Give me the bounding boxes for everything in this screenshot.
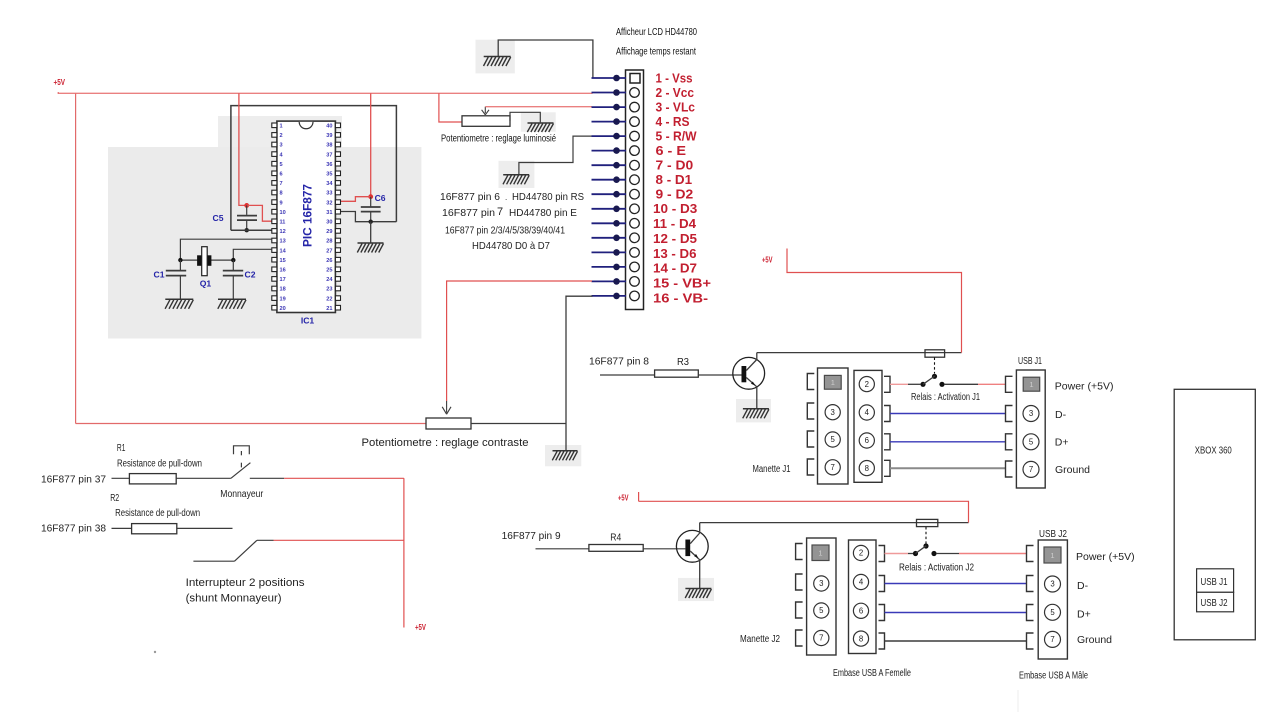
relay K1 coil <box>925 350 945 357</box>
svg-text:USB J1: USB J1 <box>1201 577 1228 588</box>
wire relay switch to USB J2 power <box>937 553 959 555</box>
wire +5V left branch vertical <box>75 93 77 423</box>
svg-text:9 - D2: 9 - D2 <box>656 187 694 202</box>
wire +5V vertical bottom left <box>403 478 405 627</box>
PIC pin 4 stub <box>272 152 277 157</box>
svg-text:5: 5 <box>819 606 824 615</box>
svg-text:25: 25 <box>326 268 332 274</box>
wire R1 to monnayeur <box>176 477 231 479</box>
wire Q4 collector up <box>699 523 701 533</box>
svg-text:12 - D5: 12 - D5 <box>653 231 697 246</box>
wire LCD pin1 Vss to ground <box>498 40 593 78</box>
switch interrupteur lower contact <box>193 560 234 562</box>
wire VB- to contrast pot right and ground <box>566 296 593 451</box>
IC notch <box>299 122 313 129</box>
wire LCD pin2 stub <box>592 92 627 94</box>
transistor Q3 <box>733 357 765 389</box>
PIC pin 23 stub <box>335 286 340 291</box>
LCD connector pin16 circle <box>630 291 640 301</box>
ground luminosity pot <box>528 122 554 124</box>
relay K1 switch <box>920 382 925 387</box>
svg-text:C1: C1 <box>154 270 165 280</box>
svg-text:HD44780 pin E: HD44780 pin E <box>509 207 577 219</box>
svg-text:21: 21 <box>326 306 332 312</box>
connector USB J1 body <box>1016 370 1045 488</box>
svg-text:Embase USB A Mâle: Embase USB A Mâle <box>1019 671 1088 682</box>
svg-text:4: 4 <box>865 408 870 417</box>
node red C6 junction <box>368 194 373 199</box>
PIC pin 27 stub <box>335 248 340 253</box>
connector Manette J2 pin5 <box>814 603 829 618</box>
gray box behind top ground <box>476 40 515 74</box>
svg-text:11 - D4: 11 - D4 <box>653 216 697 231</box>
gray box behind luminosity ground <box>521 112 556 131</box>
svg-text:16F877 pin 2/3/4/5/38/39/40/41: 16F877 pin 2/3/4/5/38/39/40/41 <box>445 226 565 237</box>
LCD connector CN1 body <box>626 70 644 310</box>
svg-text:8 - D1: 8 - D1 <box>656 172 693 187</box>
wire LCD pin14 stub <box>592 266 627 268</box>
svg-text:+5V: +5V <box>762 256 773 265</box>
svg-text:Manette J1: Manette J1 <box>753 464 791 475</box>
svg-text:10: 10 <box>280 210 286 216</box>
svg-text:20: 20 <box>280 306 286 312</box>
wire PIC pin13 to crystal <box>180 239 271 260</box>
ground Vss <box>484 56 511 58</box>
PIC pin 39 stub <box>335 133 340 138</box>
wire pin38 to R2 <box>112 527 132 529</box>
LCD connector pin10 circle <box>630 204 640 214</box>
wire C6 ground lead <box>370 222 372 243</box>
PIC pin 2 stub <box>272 133 277 138</box>
PIC pin 9 stub <box>272 200 277 205</box>
svg-text:34: 34 <box>326 181 333 187</box>
connector Manette J2 pin1 pad <box>812 545 829 561</box>
wire PIC pin31 to Vss loop <box>336 212 396 222</box>
svg-text:15: 15 <box>280 258 286 264</box>
connector Manette J2 pin7 <box>814 630 829 645</box>
bracket USB J2 left y612.5 <box>1027 605 1034 621</box>
wire Q4 collector to relay coil <box>700 522 969 524</box>
node C6 to Vss junction <box>369 220 373 224</box>
gray box behind contrast ground <box>545 445 581 466</box>
wire +5V rail tick <box>57 92 59 94</box>
svg-text:Power (+5V): Power (+5V) <box>1076 551 1135 563</box>
svg-text:Relais : Activation J2: Relais : Activation J2 <box>899 562 974 573</box>
svg-text:11: 11 <box>280 220 286 226</box>
bracket Embase J2 right y583.5 <box>879 576 885 592</box>
wire J1 pin2 to relay switch <box>890 383 908 385</box>
connector Manette J1 odd body <box>818 368 849 484</box>
resistor R4 <box>589 545 643 552</box>
svg-text:R4: R4 <box>610 533 621 544</box>
bracket Embase J2 right y553.5 <box>879 546 885 562</box>
connector Embase J1 pin8 <box>859 461 874 476</box>
node crystal right <box>231 258 235 262</box>
svg-text:C6: C6 <box>375 193 386 203</box>
svg-text:C2: C2 <box>245 270 256 280</box>
svg-text:2: 2 <box>859 549 863 558</box>
wire LCD pin6 stub <box>592 150 627 152</box>
bracket USB J2 left y553.5 <box>1027 546 1034 562</box>
LCD connector pin5 circle <box>630 131 640 141</box>
PIC pin 28 stub <box>335 238 340 243</box>
connector USB J1 pin3 <box>1023 406 1039 422</box>
wire +5V rail horizontal <box>59 92 593 94</box>
connector Embase J1 even body <box>854 370 882 482</box>
bracket USB J1 left y469 <box>1006 461 1013 477</box>
PIC pin 19 stub <box>272 296 277 301</box>
PIC pin 33 stub <box>335 190 340 195</box>
svg-text:10 - D3: 10 - D3 <box>653 201 697 216</box>
wire LCD pin7 stub <box>592 164 627 166</box>
svg-text:Q1: Q1 <box>200 279 212 289</box>
svg-text:5: 5 <box>280 162 283 168</box>
PIC pin 11 stub <box>272 219 277 224</box>
connector Embase J2 even body <box>849 540 877 654</box>
svg-text:36: 36 <box>326 162 332 168</box>
svg-text:+5V: +5V <box>618 494 629 503</box>
node C5 to Vss junction <box>245 228 249 232</box>
PIC pin 18 stub <box>272 286 277 291</box>
svg-text:31: 31 <box>326 210 332 216</box>
LCD connector pin2 circle <box>630 88 640 98</box>
node LCD pin1 <box>613 75 620 82</box>
ground R/W <box>503 174 529 176</box>
wire R3 to Q3 base <box>698 374 741 376</box>
svg-text:24: 24 <box>326 277 333 283</box>
potentiometer P1 wiper arrow <box>484 107 486 114</box>
ground contrast <box>553 450 578 452</box>
relay K2 dashed link <box>925 527 927 544</box>
connector Embase J2 pin6 <box>853 603 868 618</box>
svg-text:Potentiometre : reglage lumino: Potentiometre : reglage luminosié <box>441 134 556 145</box>
PIC pin 31 stub <box>335 209 340 214</box>
resistor R1 <box>129 474 176 484</box>
PIC pin 17 stub <box>272 277 277 282</box>
svg-text:(shunt Monnayeur): (shunt Monnayeur) <box>186 593 282 605</box>
LCD connector pin14 circle <box>630 262 640 272</box>
wire J1 D- blue <box>890 413 1006 415</box>
PIC pin 8 stub <box>272 190 277 195</box>
PIC pin 6 stub <box>272 171 277 176</box>
svg-text:.: . <box>505 193 507 202</box>
node LCD pin14 <box>613 264 620 271</box>
svg-text:16F877 pin: 16F877 pin <box>442 207 495 219</box>
svg-text:16F877 pin 9: 16F877 pin 9 <box>502 530 561 542</box>
connector USB J2 pin3 <box>1045 576 1061 592</box>
svg-text:USB J1: USB J1 <box>1018 356 1042 367</box>
svg-text:2 - Vcc: 2 - Vcc <box>656 85 695 100</box>
capacitor C5 <box>246 205 248 215</box>
connector Manette J1 pin5 <box>825 432 840 447</box>
wire +5V rail to relay J2 <box>639 501 969 522</box>
potentiometer P1 reglage luminosite body <box>462 116 510 127</box>
gray box behind R/W ground <box>499 161 535 188</box>
wire pin8 to R3 <box>600 374 655 376</box>
wire red +5V drop to C6 node <box>370 93 372 196</box>
capacitor C1 <box>179 260 181 270</box>
svg-text:8: 8 <box>859 634 863 643</box>
svg-text:+5V: +5V <box>54 78 66 87</box>
PIC pin 15 stub <box>272 257 277 262</box>
node LCD pin2 <box>613 89 620 96</box>
wire pin37 to R1 <box>112 477 130 479</box>
svg-text:5: 5 <box>1050 608 1055 617</box>
svg-text:HD44780 pin RS: HD44780 pin RS <box>512 191 584 203</box>
node LCD pin6 <box>613 147 620 154</box>
bracket Manette J2 left y582 <box>796 574 803 590</box>
node LCD pin7 <box>613 162 620 169</box>
wire LCD pin12 stub <box>592 237 627 239</box>
PIC pin 38 stub <box>335 142 340 147</box>
bracket USB J1 left y384.3 <box>1006 376 1013 392</box>
node LCD pin15 <box>613 278 620 285</box>
bracket Manette J2 left y610 <box>796 602 803 618</box>
background gray panel main <box>108 147 421 339</box>
stray dot <box>154 651 156 653</box>
svg-text:6: 6 <box>280 172 283 178</box>
wire Q3 collector up <box>756 353 758 360</box>
connector Embase J2 pin2 <box>853 545 868 560</box>
wire LCD pin1 stub <box>592 77 627 79</box>
svg-text:8: 8 <box>280 191 283 197</box>
bracket Manette J1 left y467 <box>807 459 814 475</box>
svg-text:29: 29 <box>326 229 332 235</box>
svg-text:37: 37 <box>326 152 332 158</box>
svg-text:6 - E: 6 - E <box>656 143 687 158</box>
node red C5 junction <box>244 203 249 208</box>
svg-text:7: 7 <box>1050 635 1054 644</box>
svg-text:38: 38 <box>326 143 332 149</box>
node LCD pin8 <box>613 176 620 183</box>
wire J2 pin2 to relay switch <box>885 553 909 555</box>
wire J2 D- blue <box>885 583 1027 585</box>
wire red node to PIC pin11 <box>247 205 272 221</box>
ground Q3 emitter <box>743 408 769 410</box>
svg-text:39: 39 <box>326 133 332 139</box>
connector Manette J1 pin3 <box>825 405 840 420</box>
svg-text:16F877 pin 37: 16F877 pin 37 <box>41 474 106 486</box>
LCD connector pin15 circle <box>630 277 640 287</box>
wire crystal row <box>180 259 233 261</box>
wire monnayeur to +5V <box>250 477 284 479</box>
bracket USB J2 left y641 <box>1027 633 1034 649</box>
LCD connector pin8 circle <box>630 175 640 185</box>
PIC pin 30 stub <box>335 219 340 224</box>
wire PIC pin32 to C6 node <box>336 197 371 202</box>
svg-text:1: 1 <box>1029 380 1033 389</box>
potentiometer P2 reglage contraste body <box>426 418 471 429</box>
PIC pin 7 stub <box>272 181 277 186</box>
wire LCD pin5 R/W to ground <box>519 136 592 175</box>
node LCD pin5 <box>613 133 620 140</box>
capacitor C2 <box>232 260 234 270</box>
svg-text:3: 3 <box>831 408 835 417</box>
connector Embase J2 pin4 <box>853 574 868 589</box>
svg-text:R3: R3 <box>677 357 690 368</box>
ground C6 <box>358 242 384 244</box>
bracket USB J1 left y413.5 <box>1006 406 1013 422</box>
node LCD pin12 <box>613 235 620 242</box>
capacitor C6 <box>370 197 372 207</box>
wire contrast pot right <box>471 423 566 425</box>
gray box behind Q4 emitter ground <box>678 578 714 601</box>
svg-text:3: 3 <box>280 143 283 149</box>
svg-text:Potentiometre : reglage contra: Potentiometre : reglage contraste <box>362 437 529 449</box>
node crystal left <box>178 258 182 262</box>
svg-text:1: 1 <box>280 124 283 130</box>
svg-text:Afficheur LCD HD44780: Afficheur LCD HD44780 <box>616 27 697 38</box>
ground C2 <box>218 298 246 300</box>
svg-text:4: 4 <box>859 578 864 587</box>
PIC pin 24 stub <box>335 277 340 282</box>
svg-text:4 - RS: 4 - RS <box>656 114 690 129</box>
svg-text:7: 7 <box>819 634 823 643</box>
relay K1 dashed link <box>934 358 936 374</box>
wire LCD pin16 stub <box>592 295 627 297</box>
svg-text:1 - Vss: 1 - Vss <box>656 70 693 85</box>
svg-text:Interrupteur 2 positions: Interrupteur 2 positions <box>186 577 306 589</box>
svg-text:Monnayeur: Monnayeur <box>220 489 264 500</box>
svg-text:Power (+5V): Power (+5V) <box>1055 380 1114 392</box>
node LCD pin9 <box>613 191 620 198</box>
LCD connector pin9 circle <box>630 189 640 199</box>
connector USB J1 pin5 <box>1023 434 1039 450</box>
svg-text:D-: D- <box>1077 580 1089 592</box>
svg-text:1: 1 <box>1050 551 1054 560</box>
connector USB J2 pin7 <box>1045 631 1061 647</box>
wire LCD pin13 stub <box>592 251 627 253</box>
svg-text:XBOX 360: XBOX 360 <box>1195 445 1232 456</box>
svg-text:USB J2: USB J2 <box>1201 598 1228 609</box>
PIC pin 21 stub <box>335 305 340 310</box>
svg-text:16 - VB-: 16 - VB- <box>653 290 708 305</box>
svg-text:6: 6 <box>859 607 863 616</box>
PIC pin 25 stub <box>335 267 340 272</box>
connector Embase J1 pin6 <box>859 433 874 448</box>
crystal Q1 <box>197 255 202 265</box>
relay K2 coil <box>917 519 938 526</box>
svg-text:28: 28 <box>326 239 332 245</box>
connector Manette J2 odd body <box>807 538 836 655</box>
relay K2 switch <box>913 551 918 556</box>
svg-text:23: 23 <box>326 287 332 293</box>
svg-text:1: 1 <box>831 378 835 387</box>
bracket Manette J1 left y381.5 <box>807 374 814 390</box>
wire relay switch to USB J1 power <box>945 383 978 385</box>
node LCD pin16 <box>613 293 620 300</box>
LCD connector pin7 circle <box>630 160 640 170</box>
wire Vss line to PIC pin12 <box>231 229 272 231</box>
bracket Embase J1 right y384.3 <box>884 376 890 392</box>
LCD connector pin1 square <box>630 74 640 84</box>
svg-text:Resistance de pull-down: Resistance de pull-down <box>117 459 202 470</box>
wire J2 D+ blue <box>885 612 1027 614</box>
wire J2 ground black <box>885 640 1027 642</box>
svg-text:Resistance de pull-down: Resistance de pull-down <box>115 508 200 519</box>
svg-text:13: 13 <box>280 239 286 245</box>
wire PIC pin14 to crystal <box>233 249 271 260</box>
svg-text:Embase USB A Femelle: Embase USB A Femelle <box>833 668 911 679</box>
wire Q4 emitter to ground <box>699 560 701 589</box>
PIC pin 20 stub <box>272 305 277 310</box>
wire relay K1 to +5V <box>787 249 962 353</box>
svg-text:13 - D6: 13 - D6 <box>653 246 697 261</box>
wire +5V to contrast pot <box>76 423 426 425</box>
connector Embase J1 pin2 <box>859 377 874 392</box>
bracket Manette J2 left y551.5 <box>796 544 803 560</box>
svg-text:3: 3 <box>1050 580 1054 589</box>
svg-text:R2: R2 <box>110 493 119 504</box>
svg-text:14: 14 <box>280 248 287 254</box>
LCD connector pin12 circle <box>630 233 640 243</box>
PIC pin 36 stub <box>335 161 340 166</box>
svg-text:Ground: Ground <box>1077 634 1112 646</box>
connector USB J1 pin7 <box>1023 461 1039 477</box>
PIC pin 29 stub <box>335 229 340 234</box>
wire R2 open end <box>177 527 233 529</box>
svg-text:5 - R/W: 5 - R/W <box>656 129 698 144</box>
wire LCD pin8 stub <box>592 179 627 181</box>
wire VLc red from wiper to LCD pin3 <box>485 106 592 108</box>
svg-text:7 - D0: 7 - D0 <box>656 158 694 173</box>
svg-text:30: 30 <box>326 220 332 226</box>
svg-text:9: 9 <box>280 200 283 206</box>
connector USB J2 pin5 <box>1045 604 1061 620</box>
svg-text:7: 7 <box>497 206 503 218</box>
transistor Q4 <box>676 530 708 562</box>
wire Q3 collector to relay coil <box>757 352 962 354</box>
background gray panel upper band <box>218 116 342 147</box>
XBOX USB J2 port box <box>1197 592 1234 612</box>
svg-text:5: 5 <box>831 435 836 444</box>
LCD connector pin4 circle <box>630 117 640 127</box>
PIC pin 22 stub <box>335 296 340 301</box>
svg-text:17: 17 <box>280 277 286 283</box>
svg-text:+5V: +5V <box>415 623 426 632</box>
node LCD pin10 <box>613 206 620 213</box>
wire +5V tick J2 <box>638 492 640 501</box>
wire LCD pin5 stub <box>592 135 627 137</box>
PIC pin 5 stub <box>272 161 277 166</box>
connector Embase J2 pin8 <box>853 631 868 646</box>
node LCD pin3 <box>613 104 620 111</box>
node LCD pin11 <box>613 220 620 227</box>
connector USB J2 body <box>1038 540 1067 659</box>
svg-text:16F877 pin 38: 16F877 pin 38 <box>41 523 106 535</box>
bracket Embase J1 right y441.8 <box>884 434 890 450</box>
svg-text:Affichage temps restant: Affichage temps restant <box>616 46 696 57</box>
svg-text:40: 40 <box>326 124 332 130</box>
svg-text:7: 7 <box>831 463 835 472</box>
svg-text:Ground: Ground <box>1055 464 1090 476</box>
switch monnayeur lever <box>231 463 251 479</box>
svg-text:32: 32 <box>326 200 332 206</box>
wire VB+ red to contrast wiper <box>447 281 592 401</box>
gray box behind Q3 emitter ground <box>736 399 771 422</box>
svg-text:19: 19 <box>280 296 286 302</box>
wire interrupteur to +5V <box>257 539 274 541</box>
contrast pot wiper arrow <box>446 401 448 413</box>
svg-text:C5: C5 <box>213 213 224 223</box>
svg-text:33: 33 <box>326 191 332 197</box>
PIC pin 32 stub <box>335 200 340 205</box>
IC U1 PIC16F877 body <box>277 121 336 312</box>
svg-text:R1: R1 <box>117 443 126 454</box>
svg-text:5: 5 <box>1029 438 1034 447</box>
wire J1 D+ blue <box>890 441 1006 443</box>
PIC pin 13 stub <box>272 238 277 243</box>
